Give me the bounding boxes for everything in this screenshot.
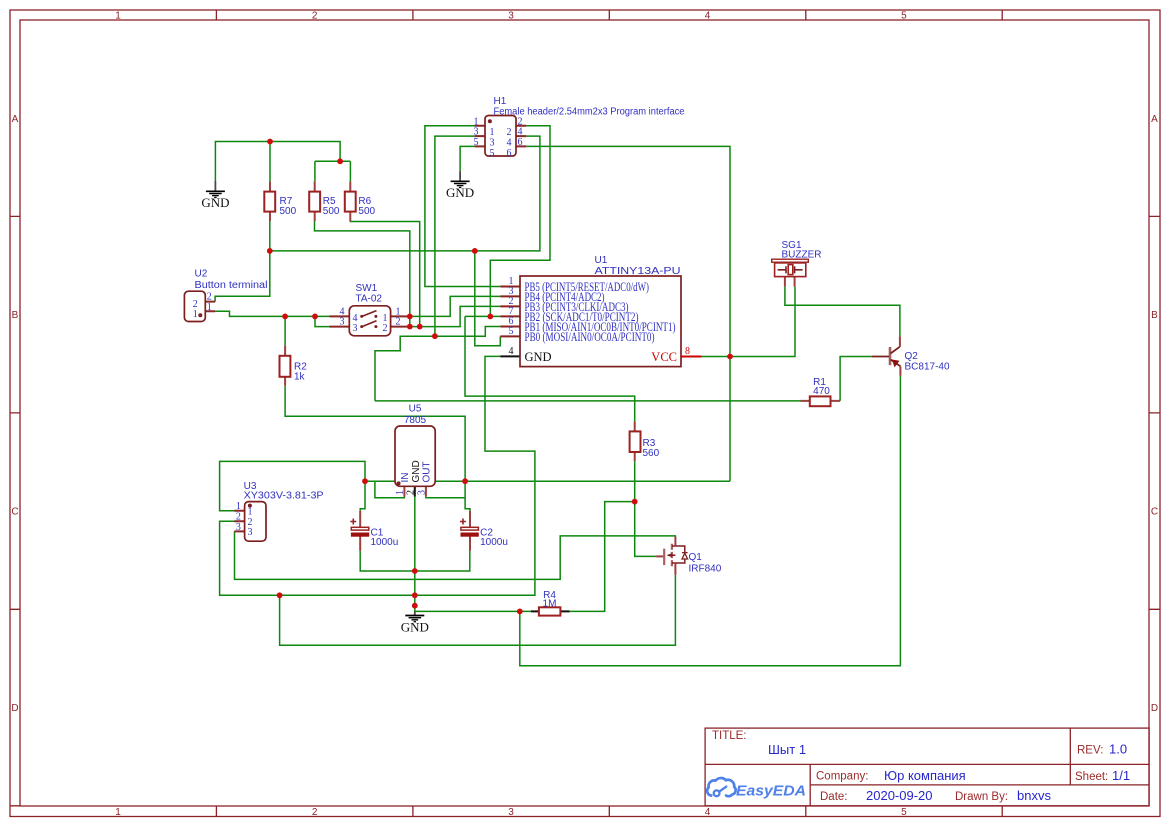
wire R1 right to Q2 base: [840, 357, 872, 401]
junction R5/R6 top rail: [337, 158, 343, 164]
wire U3 pin3 rail to Q1 drain: [235, 531, 676, 579]
svg-text:5: 5: [901, 11, 907, 22]
svg-text:C: C: [11, 507, 18, 518]
svg-text:Company:: Company:: [816, 771, 868, 783]
svg-text:ATTINY13A-PU: ATTINY13A-PU: [595, 266, 681, 277]
wire net MOSI horizontal y=250.9 to H1 pin4: [270, 136, 540, 251]
svg-text:8: 8: [685, 346, 690, 357]
junction R3 column / R4 branch: [632, 499, 638, 505]
junction SW1 pin2 / R5 descender end: [407, 324, 413, 330]
wire R7 bottom to U2 pin2: [215, 221, 270, 301]
junction U2 pin1 row / R2: [282, 314, 288, 320]
wire Q1 source to left bottom rail up to GND rail dot: [280, 575, 676, 645]
svg-text:1M: 1M: [543, 599, 557, 610]
svg-text:1k: 1k: [294, 372, 306, 383]
wire SW1 pin1 riser to PB4: [410, 296, 501, 316]
wire PB0 jog to H1 pin4 riser: [475, 251, 501, 346]
svg-text:500: 500: [358, 206, 375, 217]
wire H1 pin5 to GND2: [460, 146, 479, 171]
junction R7 bottom / MOSI rail: [267, 248, 273, 254]
ground GND2: [451, 171, 470, 187]
resistor R2: [280, 346, 291, 386]
DOTS: [267, 139, 733, 615]
wire R1 row: [375, 400, 801, 402]
column ticks bottom: [216, 806, 1002, 817]
junction R7 top / GND1 rail: [267, 139, 273, 145]
wire U5 pin2 GND column: [414, 497, 416, 606]
wire PB2 riser down to R3: [465, 316, 635, 421]
junction U2 pin1 row / SW1 pin3 jog: [312, 314, 318, 320]
wire R2 bottom rail to OUT dot: [285, 386, 465, 481]
svg-text:XY303V-3.81-3P: XY303V-3.81-3P: [244, 490, 324, 501]
svg-text:B: B: [12, 310, 19, 321]
svg-text:3: 3: [353, 323, 358, 334]
junction SW1 pin2 row / R6 descender end: [417, 324, 423, 330]
wire R2 top: [284, 316, 286, 345]
wire buzzer left pin to Q2 collector: [785, 287, 900, 337]
svg-text:Drawn By:: Drawn By:: [955, 791, 1008, 803]
svg-text:1: 1: [115, 807, 121, 818]
wire GND1 rail to R7/R5/R6 top: [215, 142, 350, 182]
column ticks top: [216, 10, 1002, 20]
svg-text:TA-02: TA-02: [356, 293, 383, 304]
wire H1 pin3 descender to PB1 rail: [435, 136, 479, 336]
svg-text:2: 2: [396, 317, 401, 328]
svg-text:Шыт 1: Шыт 1: [768, 742, 806, 757]
junction GND rail / U5 GND column: [412, 592, 418, 598]
svg-text:3: 3: [236, 522, 241, 533]
svg-text:5: 5: [490, 148, 495, 159]
svg-text:EasyEDA: EasyEDA: [736, 783, 806, 800]
junction C1/C2 rail / U5 GND column: [412, 568, 418, 574]
svg-text:TITLE:: TITLE:: [712, 730, 747, 742]
svg-text:500: 500: [280, 206, 297, 217]
wire U3 pin1 IN rail to C1/IN dot: [220, 461, 365, 510]
svg-text:GND: GND: [401, 619, 429, 634]
svg-text:C: C: [1151, 507, 1158, 518]
wire PB1 staircase to R1 row: [375, 327, 500, 401]
svg-text:2: 2: [312, 807, 318, 818]
svg-text:D: D: [11, 703, 18, 714]
svg-text:D: D: [1151, 703, 1158, 714]
wire VCC row U1 pin8 to buzzer right pin: [702, 287, 796, 357]
wire OUT dot jog to U5 pin3: [426, 497, 465, 498]
svg-text:U2: U2: [195, 269, 208, 280]
junction PB1 rail / H1 pin3 descender: [432, 333, 438, 339]
svg-text:Button terminal: Button terminal: [195, 280, 268, 291]
wire U2 pin1 to SW1 left pins: [215, 311, 329, 326]
wire H1 pin6 VCC column: [526, 146, 730, 481]
connector U3 XY303V: [234, 502, 266, 542]
svg-text:5: 5: [901, 807, 907, 818]
wire IN dot to C1 top: [360, 481, 365, 511]
resistor R7: [264, 181, 275, 221]
svg-text:2: 2: [406, 490, 417, 495]
svg-text:A: A: [12, 114, 19, 125]
svg-text:U5: U5: [409, 404, 422, 415]
wire U3 pin2 GND rail staircase to U1 GND pin: [220, 356, 535, 595]
svg-text:5: 5: [509, 326, 514, 337]
capacitor C1: [350, 511, 369, 551]
svg-text:3: 3: [508, 11, 514, 22]
wire C1 C2 bottom rail: [360, 551, 470, 571]
svg-text:2: 2: [383, 323, 388, 334]
svg-text:2: 2: [207, 292, 212, 303]
svg-text:1: 1: [248, 507, 253, 518]
svg-text:B: B: [1151, 310, 1158, 321]
svg-text:5: 5: [474, 137, 479, 148]
svg-text:3: 3: [248, 527, 253, 538]
svg-text:6: 6: [507, 148, 512, 159]
switch SW1 TA-02: [330, 306, 411, 336]
svg-text:1/1: 1/1: [1112, 768, 1130, 783]
wire Q2 emitter down to bottom rail and up to R4 dot: [520, 376, 901, 666]
IC U1 ATTINY13A-PU: [500, 276, 701, 367]
wire R3 bottom through dot to Q1 gate: [635, 461, 656, 556]
transistor Q1 IRF840: [656, 537, 688, 575]
svg-text:560: 560: [643, 448, 660, 459]
svg-text:GND: GND: [201, 195, 229, 210]
wire R4 row left part: [415, 606, 531, 612]
svg-text:IN: IN: [400, 473, 411, 483]
resistor R1: [801, 396, 841, 406]
svg-text:3: 3: [508, 807, 514, 818]
wire R4 right to Q1 gate net: [570, 502, 635, 612]
svg-text:1: 1: [236, 501, 241, 512]
wire SW1 pin2 riser to PB3: [410, 306, 501, 326]
svg-text:A: A: [1151, 114, 1158, 125]
svg-text:BUZZER: BUZZER: [782, 250, 822, 261]
svg-text:Date:: Date:: [820, 791, 848, 803]
svg-text:1: 1: [395, 490, 406, 495]
svg-text:3: 3: [417, 490, 428, 495]
header H1: [475, 116, 527, 157]
svg-text:3: 3: [340, 317, 345, 328]
resistor R3: [630, 421, 641, 461]
svg-text:4: 4: [509, 346, 514, 357]
svg-text:7805: 7805: [404, 415, 427, 426]
junction IN rail / C1 branch: [362, 478, 368, 484]
buzzer SG1: [772, 259, 809, 287]
svg-text:2: 2: [312, 11, 318, 22]
junction VCC row / H1 pin6 column: [727, 354, 733, 360]
svg-text:bnxvs: bnxvs: [1017, 788, 1051, 803]
wire R6 bottom staircase to SW1 row2: [350, 221, 419, 326]
connector U2 Button terminal: [184, 291, 215, 321]
svg-text:1000u: 1000u: [480, 537, 508, 548]
svg-text:IRF840: IRF840: [689, 564, 722, 575]
junction R4 row / Q2 emitter branch: [517, 609, 523, 615]
svg-text:BC817-40: BC817-40: [905, 361, 950, 372]
TITLEBLOCK: [705, 728, 1149, 806]
EasyEDA logo: [707, 778, 806, 799]
svg-text:PB0 (MOSI/AIN0/OC0A/PCINT0): PB0 (MOSI/AIN0/OC0A/PCINT0): [525, 330, 655, 344]
svg-text:4: 4: [705, 11, 711, 22]
title block outline: [705, 728, 1149, 806]
svg-text:REV:: REV:: [1077, 745, 1103, 757]
junction GND rail / bottom rail riser: [277, 592, 283, 598]
svg-text:U1: U1: [595, 255, 608, 266]
svg-text:SW1: SW1: [356, 283, 378, 294]
junction PB2 pin / H1 pin2 riser: [487, 314, 493, 320]
ground GND3: [405, 611, 424, 622]
svg-text:500: 500: [323, 206, 340, 217]
svg-text:GND: GND: [446, 185, 474, 200]
wire OUT dot to C2 top: [465, 481, 470, 511]
wire IN dot jog to U5 pin1: [365, 481, 404, 498]
wire R5 bottom staircase to SW1 row1: [315, 221, 410, 326]
transistor Q2 BC817-40: [872, 336, 900, 376]
resistor R4: [531, 607, 570, 615]
row ticks right: [1149, 216, 1160, 609]
svg-text:2020-09-20: 2020-09-20: [866, 788, 933, 803]
wire H1 pin1 to PB5: [425, 126, 500, 287]
svg-text:H1: H1: [494, 96, 507, 107]
svg-text:GND: GND: [411, 460, 422, 482]
svg-text:Sheet:: Sheet:: [1075, 771, 1108, 783]
svg-text:Q1: Q1: [689, 552, 703, 563]
svg-text:6: 6: [518, 137, 523, 148]
junction GND symbol node: [412, 603, 418, 609]
svg-text:4: 4: [705, 807, 711, 818]
capacitor C2: [460, 511, 478, 551]
wire OUT rail C1dot to VCC column corner: [365, 480, 730, 482]
svg-text:GND: GND: [525, 350, 552, 364]
svg-text:Юр компания: Юр компания: [884, 768, 966, 783]
svg-text:VCC: VCC: [651, 350, 677, 364]
row ticks left: [10, 216, 20, 805]
svg-text:1: 1: [207, 302, 212, 313]
svg-text:1: 1: [193, 309, 198, 320]
junction OUT rail / C2 branch: [462, 478, 468, 484]
svg-text:1.0: 1.0: [1109, 742, 1127, 757]
junction MOSI rail / PB0 riser: [472, 248, 478, 254]
svg-text:470: 470: [813, 386, 830, 397]
wire H1 pin2 staircase to PB2: [465, 126, 550, 317]
junction SW1 pin1 / R5 descender: [407, 314, 413, 320]
resistor R5: [309, 181, 320, 221]
svg-text:1000u: 1000u: [371, 537, 399, 548]
regulator U5 7805: [395, 426, 435, 497]
ground GND1: [206, 181, 225, 198]
svg-text:OUT: OUT: [422, 461, 433, 482]
svg-text:1: 1: [115, 11, 121, 22]
resistor R6: [345, 181, 356, 221]
